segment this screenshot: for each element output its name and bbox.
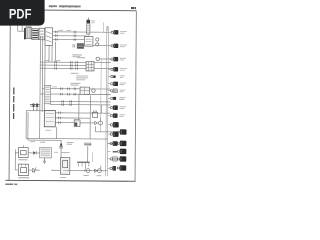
wire rowD1 [55, 112, 110, 114]
connector C14 [108, 151, 118, 153]
connector C13 [108, 141, 118, 146]
bus wire V4 [48, 45, 50, 62]
wire row 1 [53, 31, 102, 33]
connector ring X2 [96, 43, 99, 46]
connector C2 [108, 44, 118, 48]
page border right [135, 12, 136, 182]
note text block 1 [71, 73, 89, 81]
ECU box U1 [44, 110, 55, 126]
relay K2 label [77, 56, 85, 59]
coil feed drop [60, 140, 62, 157]
connector E3 [117, 149, 126, 154]
wire rowA2 [40, 64, 88, 66]
wire rowD3 [55, 122, 74, 124]
label under box 2 [18, 177, 29, 178]
condenser C2 [59, 144, 63, 148]
starter box [18, 164, 28, 176]
header rule [10, 9, 137, 12]
stub wire to X11 [108, 142, 119, 144]
small module M1 [74, 120, 80, 127]
connector C4 [108, 67, 118, 71]
page title text [49, 5, 81, 8]
connector E4 [117, 156, 126, 161]
wire rowC2 [50, 103, 111, 105]
label under box 1 [18, 159, 27, 160]
connector ticks C [55, 61, 57, 70]
wire row 2 [52, 35, 86, 37]
PDF badge [0, 0, 45, 26]
diode D2 [28, 151, 40, 155]
wire coil feed [51, 169, 60, 171]
bus wire V5 [51, 45, 53, 62]
relay K3 [80, 87, 90, 94]
ignition switch S2 [45, 28, 53, 46]
wire rowB1 [42, 88, 110, 91]
drop wire b [89, 95, 91, 138]
drop wire c [100, 105, 102, 113]
oxygen sensor B3 [95, 169, 102, 173]
ground bus 2 [28, 139, 61, 141]
connector C1 [108, 30, 118, 34]
bus wire V2 [41, 36, 44, 112]
connector C6 [108, 82, 118, 86]
ECU ground drop [56, 127, 58, 139]
bus wire V3 [44, 45, 47, 111]
wire stubs under badge [18, 26, 25, 32]
wire rowA3 [40, 67, 111, 70]
knock sensor B2 [85, 169, 90, 173]
connector ticks F [62, 100, 72, 106]
capacitor C1 noise filter [30, 103, 40, 110]
drop wire a [78, 94, 80, 120]
fuse box F1 [32, 29, 39, 40]
connector destination labels [119, 31, 127, 117]
wire rowC1 [50, 100, 111, 102]
bus wire V6 [54, 42, 56, 62]
relay block K1 [24, 28, 32, 40]
connector ring X4 [92, 89, 95, 92]
ground symbol GND1 [43, 158, 46, 164]
sidebar rotated caption [13, 88, 15, 119]
connector C10 [108, 113, 118, 117]
note text block 3 [72, 54, 82, 57]
connector ring X3 [96, 57, 99, 60]
distributor drop wires [85, 166, 100, 169]
connector E2 [118, 141, 127, 146]
connector C15 [107, 157, 117, 161]
wire left drop [15, 150, 18, 170]
connector C8 [108, 97, 116, 100]
fusible link FL1 [86, 17, 90, 36]
wire row 3 [52, 38, 84, 40]
ground bus 1 [26, 137, 108, 140]
wire to C3 [99, 58, 110, 60]
ignition unit box [19, 145, 29, 158]
wire rowB3 [40, 93, 111, 96]
harness boundary line b [107, 26, 108, 176]
wire to C2 [93, 45, 111, 47]
wire to C1 [102, 22, 111, 32]
wire sensors row [67, 169, 107, 171]
connector C16 [107, 166, 116, 171]
connector ticks G [58, 111, 60, 123]
spark gap symbol [28, 167, 39, 173]
bottom rule [5, 180, 135, 181]
connector C5 [108, 75, 116, 77]
bus wire V1 [39, 36, 42, 139]
label box L2 [40, 147, 52, 158]
connector E5 [117, 165, 126, 170]
wire rowD2 [55, 117, 90, 119]
svg-text:PDF: PDF [9, 7, 32, 22]
connector ticks D [70, 61, 77, 70]
relay K2 [86, 62, 94, 71]
ignition coil T1 [60, 157, 70, 174]
connector ticks E [61, 87, 76, 95]
connector E1 [118, 129, 127, 134]
switch box S1 [39, 28, 45, 40]
oil pressure sensor B1 [80, 118, 103, 125]
junction box J1 [84, 37, 93, 47]
connector ring X1 [96, 38, 99, 41]
connector C3 [108, 57, 118, 61]
note text block 2 [70, 83, 80, 86]
connector C7 [108, 89, 117, 93]
page border left [9, 11, 10, 181]
distributor comb [84, 142, 91, 162]
shield wire pair [26, 111, 44, 141]
page number 281 [131, 7, 136, 9]
harness boundary line a [106, 26, 107, 176]
connector C12 [108, 131, 119, 136]
connector ticks A [55, 31, 57, 41]
wire rowA1 [40, 61, 111, 64]
connector C9 [108, 105, 118, 110]
connector C11 [108, 122, 119, 127]
connector ticks B [74, 31, 76, 41]
fuse strip F2 [73, 43, 84, 48]
component value labels [25, 20, 126, 178]
condenser label [54, 152, 70, 153]
channel wire [100, 59, 103, 132]
distributor bus bar [77, 152, 92, 166]
stub wire to X10 [94, 126, 96, 132]
footer text [5, 183, 17, 185]
label box L1 [44, 85, 50, 104]
relay K4 [92, 110, 97, 117]
